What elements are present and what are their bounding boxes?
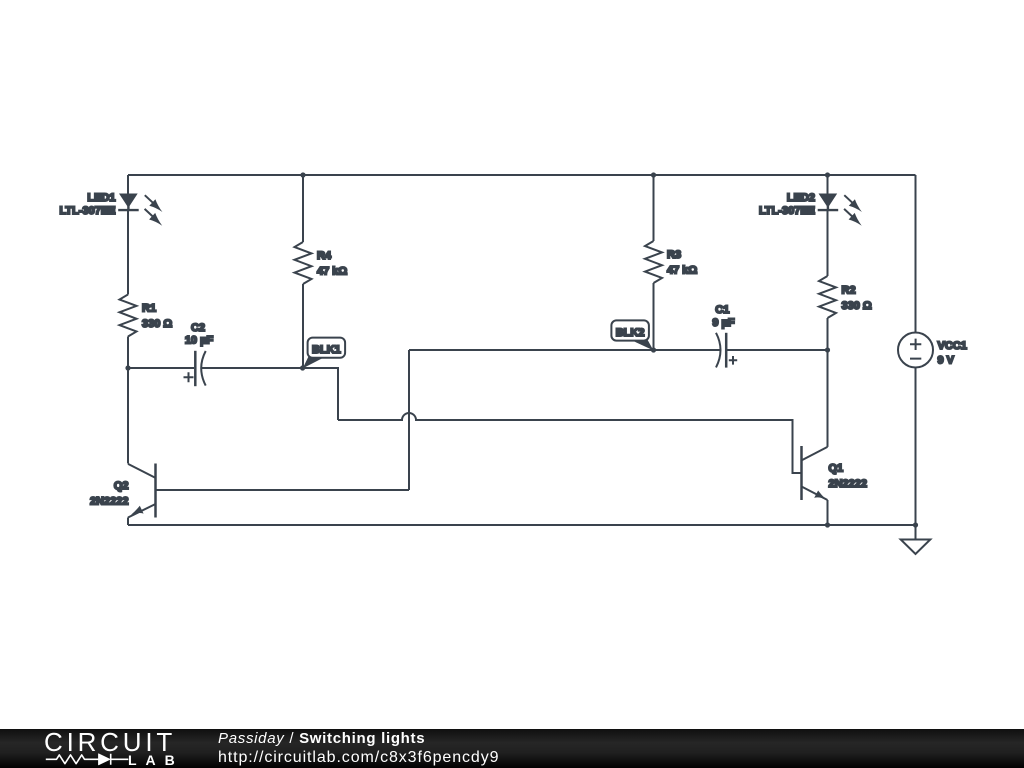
svg-text:C2: C2 [191,322,205,334]
wire Q1 collector lead [827,350,829,447]
svg-text:VCC1: VCC1 [938,340,967,352]
logo resistor symbol [46,755,99,764]
ground [901,525,931,554]
flag BLK1 [303,338,345,369]
svg-text:R2: R2 [842,284,856,296]
wire C1 right lead [726,349,827,351]
capacitor C2 [184,351,206,386]
wire R4 to BLK1 [302,284,304,368]
node junction C1/R2 [825,347,830,352]
footer bar [0,729,1024,768]
svg-text:R4: R4 [317,250,332,262]
svg-text:BLK2: BLK2 [616,327,645,339]
svg-text:9 µF: 9 µF [712,317,735,329]
LED LED1 [118,194,162,226]
wire R1 to Q2 collector [127,337,129,464]
wire top rail [128,174,916,176]
svg-text:R1: R1 [142,303,156,315]
svg-text:LED2: LED2 [787,192,815,204]
svg-text:LED1: LED1 [87,192,115,204]
transistor Q2 [128,464,156,518]
node junction top rail R3 [651,172,656,177]
resistor R4 [295,242,312,284]
svg-text:2N2222: 2N2222 [829,478,868,490]
resistor R3 [645,241,662,283]
svg-text:10 µF: 10 µF [185,335,214,347]
wire bottom rail [128,524,916,526]
flag BLK2 [611,320,653,350]
svg-text:C1: C1 [715,304,729,316]
wire BLK1 to cross wire [303,368,338,420]
LED LED2 [818,194,862,226]
wire Q2 emitter to bottom rail [127,518,129,526]
node junction ground bottom rail [913,522,918,527]
wire R3 branch top [653,175,655,241]
wire R2 to junction [827,318,829,350]
wire Q1 emitter to bottom rail [827,500,829,525]
wire BLK2 horizontal run [409,349,720,351]
transistor Q1 [802,446,828,500]
svg-text:9 V: 9 V [938,355,955,367]
svg-text:47 kΩ: 47 kΩ [317,266,347,278]
source VCC1 [898,333,933,368]
resistor R2 [819,276,836,318]
wire left vertical (LED1 anode lead) [127,175,129,194]
svg-text:330 Ω: 330 Ω [142,318,172,330]
svg-text:Q2: Q2 [114,480,129,492]
svg-text:330 Ω: 330 Ω [842,300,872,312]
node BLK1 junction [300,365,305,370]
node junction Q1 emitter bottom rail [825,522,830,527]
wire long horizontal with hop to Q1 base [338,413,801,473]
wire LED2 cathode to R2 [827,210,829,276]
wire LED2 anode lead [827,175,829,194]
wire VCC top lead [915,175,917,333]
wire C2 right lead [202,367,303,369]
footer author/title [218,730,425,747]
svg-text:Q1: Q1 [829,463,844,475]
wire R4 branch top [302,175,304,242]
node junction top rail R4 [300,172,305,177]
svg-text:LTL-307EE: LTL-307EE [759,205,815,217]
logo diode symbol [99,754,129,765]
node BLK2 junction [651,347,656,352]
svg-text:LAB: LAB [128,752,184,768]
node junction R1/C2 [125,365,130,370]
wire VCC bottom lead [915,368,917,526]
capacitor C1 [716,333,737,368]
wire C2 left lead [128,367,194,369]
svg-text:LTL-307EE: LTL-307EE [59,205,115,217]
resistor R1 [120,295,137,337]
wire R3 to BLK2 [653,283,655,350]
svg-text:47 kΩ: 47 kΩ [667,265,697,277]
svg-text:BLK1: BLK1 [312,344,341,356]
footer url [218,749,499,767]
svg-text:2N2222: 2N2222 [90,496,129,508]
svg-text:R3: R3 [667,249,681,261]
node junction top rail LED2 [825,172,830,177]
wire cross vertical to Q2 base [156,350,409,490]
wire LED1 cathode to R1 [127,210,129,295]
